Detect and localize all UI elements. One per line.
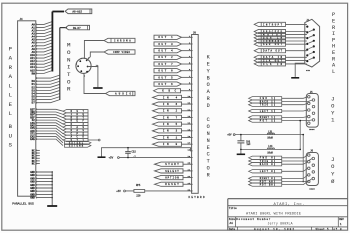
wire OUT 0 to J8 pin 6 xyxy=(182,70,192,72)
ground at J2 xyxy=(93,87,102,89)
net flag ST1 xyxy=(63,138,88,141)
address bus wires from J4 to bus xyxy=(36,22,53,75)
peripheral connector J1 body xyxy=(305,19,320,72)
net flag CLK IN xyxy=(254,62,285,66)
net flag RIGHT 0 xyxy=(249,177,282,180)
svg-text:START: START xyxy=(165,163,179,166)
net flag FWD 1 xyxy=(249,97,282,100)
wire IN 5 to J8 pin 14 xyxy=(182,123,192,125)
wire OUT 1 to J8 pin 1 xyxy=(182,36,192,38)
svg-text:O: O xyxy=(67,49,71,56)
svg-text:E: E xyxy=(332,50,335,56)
wire OUT 2 to J8 pin 4 xyxy=(182,56,192,58)
net flag IN 5 xyxy=(153,122,182,126)
wire BACK 1 to J5 xyxy=(282,100,313,102)
terminal circle ST1 xyxy=(98,139,100,141)
junction dot C93 top xyxy=(240,134,242,136)
net flag OUT 0 xyxy=(154,69,182,73)
inductor L31 xyxy=(267,133,274,135)
net flag BACK 0 xyxy=(249,163,282,166)
J5 pin circles xyxy=(308,96,315,125)
wire OUT 7 to J8 pin 5 xyxy=(182,63,192,65)
svg-text:N: N xyxy=(67,56,71,63)
net flag REF xyxy=(63,119,88,122)
wire INTRUPT to J1 xyxy=(286,23,307,25)
net flag POT B0 xyxy=(249,183,282,186)
svg-text:H: H xyxy=(332,44,335,50)
data bus line xyxy=(59,28,61,100)
+5V terminal at RP5 xyxy=(116,190,125,193)
wire CLK OUT to J1 xyxy=(286,60,307,62)
net flag IN 1 xyxy=(153,135,182,139)
wire POT A0 to J6 xyxy=(282,179,313,182)
svg-text:RW: RW xyxy=(32,72,36,75)
svg-text:CHROMA: CHROMA xyxy=(114,39,131,42)
net flag OUT 1 xyxy=(154,35,182,39)
net flag DATA OUT xyxy=(254,49,285,53)
wire J2 pin 2 to ground xyxy=(88,67,98,88)
svg-text:REV: REV xyxy=(339,218,344,221)
svg-text:RESET: RESET xyxy=(165,183,179,186)
junction dot C32 top xyxy=(127,147,129,149)
wire IN 4 to J8 pin 10 xyxy=(182,96,192,98)
wire J1 shield to ground xyxy=(295,63,305,77)
svg-text:POT B0: POT B0 xyxy=(260,183,274,186)
svg-text:T: T xyxy=(67,71,71,78)
bus flag D0-D7 xyxy=(66,25,90,30)
net flag POT A0 xyxy=(249,180,282,183)
junction dot riser A bottom xyxy=(299,149,301,151)
net flag TRIG 0 xyxy=(249,159,282,162)
net flag IRQ xyxy=(63,113,88,116)
svg-text:L: L xyxy=(9,92,12,99)
svg-text:L: L xyxy=(9,82,12,89)
svg-text:R: R xyxy=(207,96,210,102)
bus flag A0-A15 xyxy=(65,9,92,14)
svg-text:EXE: EXE xyxy=(30,138,35,141)
wire IN 6 to J8 pin 11 xyxy=(182,103,192,105)
ground rail wire xyxy=(51,172,53,206)
net flag OUT 5 xyxy=(154,75,182,79)
address bus heavy line xyxy=(51,12,53,72)
pins GND of J4 xyxy=(30,171,35,200)
net flag IN 7 xyxy=(153,115,182,119)
junction dot C32 bottom xyxy=(127,157,129,159)
wire TRIG 1 to J5 xyxy=(282,103,308,104)
svg-text:ATARI, Inc.: ATARI, Inc. xyxy=(274,203,305,207)
svg-text:L24: L24 xyxy=(268,145,273,148)
net flag MOTOR xyxy=(254,33,285,37)
wire J8 pin 18 to ground xyxy=(102,148,192,157)
svg-text:OUT 4: OUT 4 xyxy=(158,50,173,53)
svg-text:C: C xyxy=(207,152,210,158)
net flag RIGHT 1 xyxy=(249,116,282,119)
wire FWD 1 to J5 xyxy=(282,97,308,99)
wire FWD 0 to J6 xyxy=(282,155,308,158)
svg-text:OPTION: OPTION xyxy=(165,176,179,179)
svg-text:+5V: +5V xyxy=(227,134,232,137)
svg-text:2: 2 xyxy=(76,64,77,66)
net flag SER OUT xyxy=(254,42,285,46)
svg-text:Jerry 800XLA: Jerry 800XLA xyxy=(268,221,293,225)
junction dot riser B top xyxy=(302,134,304,136)
svg-text:C: C xyxy=(207,117,210,123)
svg-text:10uH: 10uH xyxy=(267,137,273,140)
svg-text:August 19, 1982: August 19, 1982 xyxy=(254,228,294,231)
J1 pin dots left column xyxy=(306,26,308,63)
net flag SER IN xyxy=(254,36,285,40)
svg-text:T: T xyxy=(207,159,210,165)
svg-text:COMP VIDEO: COMP VIDEO xyxy=(113,51,130,54)
capacitor C32 xyxy=(125,148,131,158)
wire RIGHT 1 to J5 xyxy=(282,116,308,119)
svg-text:OUT 0: OUT 0 xyxy=(158,70,173,73)
joystick connector J5 body xyxy=(306,91,318,131)
svg-text:POT 1: POT 1 xyxy=(260,119,274,122)
vertical label MONITOR xyxy=(67,42,71,93)
net flag IN 6 xyxy=(153,102,182,106)
svg-text:CLK IN: CLK IN xyxy=(263,63,283,66)
svg-text:N: N xyxy=(207,131,210,137)
+5V terminal at J8 pin 19 xyxy=(109,157,120,160)
wire START to J8 pin 20 xyxy=(183,163,192,165)
svg-text:P: P xyxy=(332,37,335,43)
net flag CLK OUT xyxy=(254,59,285,63)
svg-text:I: I xyxy=(332,31,335,37)
wire +5V to J8 pin 19 xyxy=(119,157,191,159)
vertical label PARALLEL BUS xyxy=(9,46,13,118)
svg-text:OUT 5: OUT 5 xyxy=(158,76,173,79)
svg-text:PARALLEL BUS: PARALLEL BUS xyxy=(12,202,34,205)
J6 pin circles xyxy=(308,154,315,183)
vertical label JOY1 xyxy=(331,96,335,123)
junction dots on ground rail xyxy=(51,171,53,198)
svg-text:SER OUT: SER OUT xyxy=(263,43,283,46)
svg-text:ATARI 800XL WITH FREDDIE: ATARI 800XL WITH FREDDIE xyxy=(246,212,301,216)
wire J2 pin 1 to COMP VIDEO flag xyxy=(87,52,104,60)
net flag POT 1 xyxy=(249,119,282,122)
svg-text:1: 1 xyxy=(331,117,334,123)
junction dot riser B bottom xyxy=(302,181,304,183)
net flag EXTSEL xyxy=(65,141,91,144)
net flag START xyxy=(155,162,184,166)
net flag CAS xyxy=(63,126,88,129)
svg-text:O: O xyxy=(331,164,334,170)
svg-text:of 9: of 9 xyxy=(334,228,342,231)
net flag OUT 3 xyxy=(154,42,182,46)
svg-text:E: E xyxy=(332,19,335,25)
capacitor C93 xyxy=(237,135,244,154)
ground at C93 xyxy=(237,153,245,155)
wire OUT 6 to J8 pin 8 xyxy=(182,83,192,85)
svg-text:B: B xyxy=(207,75,210,81)
wire RIGHT 0 to J6 xyxy=(282,175,308,178)
wire pot line 1 xyxy=(235,134,303,136)
wire DATA IN to J1 xyxy=(286,56,307,58)
ground at J1 xyxy=(291,77,299,79)
svg-text:SELECT: SELECT xyxy=(165,170,179,173)
svg-text:10uH: 10uH xyxy=(267,151,273,154)
svg-text:BACK 0: BACK 0 xyxy=(260,163,274,166)
ground symbol below J4 xyxy=(47,205,57,207)
net flag BACK 1 xyxy=(249,100,282,103)
net flag LEFT 1 xyxy=(249,109,282,112)
resistor RP5 xyxy=(125,190,144,193)
net flag COMP VIDEO xyxy=(104,50,135,54)
wire CLK IN to J1 xyxy=(286,63,307,65)
svg-text:O: O xyxy=(67,78,71,85)
wire LEFT 1 to J5 xyxy=(282,110,308,111)
svg-text:J: J xyxy=(331,96,334,102)
joystick connector J6 body xyxy=(306,150,318,191)
net flag SELECT xyxy=(155,169,184,173)
svg-text:O: O xyxy=(331,103,334,109)
net flag KBC xyxy=(154,89,181,93)
svg-text:Title: Title xyxy=(229,206,237,210)
net flag IN 3 xyxy=(153,129,182,133)
net flag RAS xyxy=(63,129,88,132)
svg-text:R: R xyxy=(207,173,210,179)
net flag RDY xyxy=(63,116,88,119)
svg-text:220: 220 xyxy=(136,195,141,198)
J2 pin dots xyxy=(77,60,88,73)
net flag O2 xyxy=(63,122,88,125)
svg-text:1uF: 1uF xyxy=(246,143,251,146)
wire IN 7 to J8 pin 13 xyxy=(182,116,192,118)
net flag CPS xyxy=(63,132,88,135)
svg-text:GND: GND xyxy=(30,197,35,200)
vertical label KEYBOARD CONNECTOR xyxy=(207,54,211,178)
wire pot line 2 xyxy=(241,148,300,150)
net flag OPTION xyxy=(155,175,184,179)
svg-text:DATA OUT: DATA OUT xyxy=(263,50,283,53)
wire IN 0 to J8 pin 17 xyxy=(182,143,192,145)
J8 pin numbers xyxy=(188,35,191,192)
net flag OUT 2 xyxy=(154,55,182,59)
svg-text:DB9M: DB9M xyxy=(309,128,315,131)
wire OUT 5 to J8 pin 7 xyxy=(182,76,192,78)
control signal wires xyxy=(36,108,63,145)
svg-text:LEFT 0: LEFT 0 xyxy=(260,170,274,173)
wire LEFT 0 to J6 xyxy=(282,168,308,171)
svg-text:R: R xyxy=(332,25,335,31)
svg-text:SIO: SIO xyxy=(306,69,311,72)
wire riser pot line 1 to POT A0 xyxy=(302,135,304,182)
wire bus to D0-D7 flag xyxy=(60,27,67,29)
net flag IN 4 xyxy=(153,95,182,99)
svg-text:NC: NC xyxy=(32,162,36,165)
svg-text:OUT 3: OUT 3 xyxy=(158,43,173,46)
svg-text:DB9M: DB9M xyxy=(309,188,315,191)
svg-text:INTRUPT: INTRUPT xyxy=(263,23,283,26)
svg-text:KEYBRD: KEYBRD xyxy=(189,196,205,199)
junction dot riser A top xyxy=(299,120,301,122)
net flag INTRUPT xyxy=(254,22,285,26)
wire SELECT to J8 pin 21 xyxy=(183,170,192,172)
svg-text:M: M xyxy=(67,42,71,49)
svg-text:U: U xyxy=(9,132,12,139)
J1 right column stub wires xyxy=(309,30,314,60)
title block frame xyxy=(228,199,348,231)
svg-text:O: O xyxy=(207,166,210,172)
svg-text:OUT 2: OUT 2 xyxy=(158,56,173,59)
wire DATA OUT to J1 xyxy=(286,50,307,52)
wire KBC to J8 pin 9 xyxy=(181,90,192,92)
svg-text:EXTENB: EXTENB xyxy=(69,144,84,147)
wire POT 1 to J5 xyxy=(282,119,313,122)
wire J2 pin 3 to AUDIO flag xyxy=(84,73,106,93)
wire riser POT 1 to pot line 2 xyxy=(299,121,301,150)
net flag ACK xyxy=(63,135,88,138)
wire OUT 3 to J8 pin 2 xyxy=(182,43,192,45)
svg-text:LEFT 1: LEFT 1 xyxy=(260,110,274,113)
svg-text:OUT 6: OUT 6 xyxy=(158,83,173,86)
net flag RST xyxy=(63,110,88,113)
svg-text:O: O xyxy=(207,124,210,130)
keyboard connector J8 body xyxy=(192,32,199,194)
net flag FWD 0 xyxy=(249,156,282,159)
wire flag ST1 to terminal xyxy=(88,139,98,141)
net flag OUT 6 xyxy=(154,82,182,86)
svg-text:C32: C32 xyxy=(132,151,137,154)
net flag OUT 7 xyxy=(154,62,182,66)
svg-text:E: E xyxy=(207,61,210,67)
connector J4 parallel bus body xyxy=(18,18,36,196)
net flag OUT 4 xyxy=(154,49,182,53)
J8 pin ticks xyxy=(190,37,192,191)
svg-text:L: L xyxy=(332,69,335,75)
vertical label PERIPHERAL xyxy=(332,12,336,75)
svg-text:Size: Size xyxy=(229,218,236,221)
svg-text:D0-D7: D0-D7 xyxy=(73,27,81,30)
pins D0-D7 of J4 xyxy=(32,80,36,104)
pins spare of J4 xyxy=(32,149,40,165)
DIN connector J2 body xyxy=(76,58,91,73)
net flag EXTENB xyxy=(65,144,91,147)
svg-text:A4: A4 xyxy=(230,222,234,225)
net flag CHROMA xyxy=(104,38,135,42)
svg-text:OUT 7: OUT 7 xyxy=(158,63,173,66)
svg-text:A0-A15: A0-A15 xyxy=(72,11,82,14)
svg-text:RP5: RP5 xyxy=(136,184,141,187)
svg-text:4: 4 xyxy=(81,58,82,60)
ground wires from J4 xyxy=(36,171,52,198)
net flag DATA IN xyxy=(254,55,285,59)
net flag RESET xyxy=(155,182,184,186)
vertical label JOY0 xyxy=(331,157,335,185)
wire IN 2 to J8 pin 12 xyxy=(182,110,192,112)
wire IN 3 to J8 pin 15 xyxy=(182,130,192,132)
net flag COMMAND xyxy=(254,39,285,43)
+5V terminal at C93 xyxy=(227,134,235,137)
svg-text:+5V: +5V xyxy=(116,190,121,193)
net flag LEFT 0 xyxy=(249,170,282,173)
wire bus to A0-A15 flag xyxy=(52,11,64,13)
svg-text:D7: D7 xyxy=(32,102,36,105)
svg-text:R: R xyxy=(332,56,335,62)
svg-text:R: R xyxy=(67,86,71,93)
svg-text:J4: J4 xyxy=(20,18,24,21)
wire PROCEED to J1 xyxy=(286,31,307,33)
svg-text:E: E xyxy=(207,145,210,151)
wire RESET to J8 pin 23 xyxy=(183,183,192,185)
wire COMMAND to J1 xyxy=(286,40,307,42)
net flag AUDIO xyxy=(106,91,136,95)
wire TRIG 0 to J6 xyxy=(282,159,313,162)
svg-text:+5V: +5V xyxy=(109,157,114,160)
svg-text:J8: J8 xyxy=(193,32,197,35)
J2 pin numbers xyxy=(76,57,89,77)
net flag IN 2 xyxy=(153,109,182,113)
wire BACK 0 to J6 xyxy=(282,162,308,165)
J1 pin dots right column xyxy=(313,29,315,59)
pins control signals of J4 xyxy=(30,108,35,141)
wire RP5 to J8 pin 24 xyxy=(145,190,192,192)
inductor L24 xyxy=(267,148,274,150)
wire OPTION to J8 pin 22 xyxy=(183,177,192,179)
svg-text:OUT 1: OUT 1 xyxy=(158,36,173,39)
svg-text:L31: L31 xyxy=(268,130,273,133)
svg-text:TRIG 1: TRIG 1 xyxy=(260,104,274,107)
wire J2 pin 4 to CHROMA flag xyxy=(84,41,104,60)
svg-text:N: N xyxy=(207,138,210,144)
wire IN 1 to J8 pin 16 xyxy=(182,137,192,139)
pins A0-A15 of J4 xyxy=(30,23,35,75)
svg-text:I: I xyxy=(67,64,70,71)
wire SER IN to J1 xyxy=(286,37,307,39)
net flag PROCEED xyxy=(254,29,285,33)
svg-text:Document Number: Document Number xyxy=(236,218,270,221)
ground at J8 pin 18 xyxy=(98,156,106,158)
svg-text:L: L xyxy=(9,110,12,117)
svg-text:Date: Date xyxy=(229,228,236,231)
wire POT B0 to J6 xyxy=(282,182,308,185)
wire OUT 4 to J8 pin 3 xyxy=(182,50,192,52)
svg-text:D: D xyxy=(207,103,210,109)
data bus wires from J4 to bus xyxy=(36,75,60,103)
svg-text:J: J xyxy=(331,157,334,163)
wire MOTOR to J1 xyxy=(286,34,307,36)
wire SER OUT to J1 xyxy=(286,43,307,45)
svg-text:Sheet 5: Sheet 5 xyxy=(316,228,329,231)
svg-text:O: O xyxy=(207,82,210,88)
junction dot C93 bottom xyxy=(240,149,242,151)
svg-text:P: P xyxy=(332,12,335,18)
net flag IN 0 xyxy=(153,142,182,146)
net flag TRIG 1 xyxy=(249,103,282,106)
